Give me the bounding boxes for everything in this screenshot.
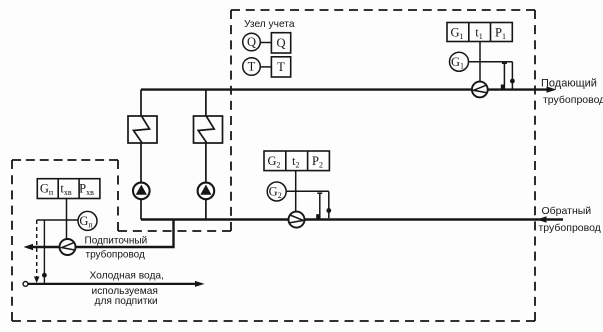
flowmeter FE2 on return pipe xyxy=(289,212,305,228)
P2 tap line with valve dot xyxy=(326,191,331,218)
supply pipe xyxy=(141,88,549,90)
svg-text:Gп: Gп xyxy=(40,182,54,198)
circle G1 xyxy=(450,52,469,71)
svg-text:tхв: tхв xyxy=(60,182,71,198)
svg-text:t1: t1 xyxy=(475,25,482,41)
pump 2 xyxy=(198,183,215,200)
makeup pipe arrow xyxy=(24,244,34,250)
svg-text:Pхв: Pхв xyxy=(79,182,94,198)
riser 1 (left heat-exchanger branch) xyxy=(140,90,142,220)
wire G1 circle to t1 line and on to P1 tap xyxy=(469,61,513,63)
svg-text:G2: G2 xyxy=(269,185,282,201)
instrument row Gp txv Pxv xyxy=(37,179,100,199)
svg-text:Gп: Gп xyxy=(79,214,93,230)
cold water pipe xyxy=(28,283,198,285)
return pipe arrow xyxy=(537,216,547,222)
svg-text:для подпитки: для подпитки xyxy=(95,296,158,307)
svg-text:G1: G1 xyxy=(451,55,464,71)
wire t1 box down to flowmeter FE1 xyxy=(479,42,481,82)
instrument row G1 t1 P1 xyxy=(447,23,512,42)
svg-text:трубопровод: трубопровод xyxy=(539,222,601,234)
flowmeter FE1 on supply pipe xyxy=(472,82,488,98)
wire Gp circle left to taps xyxy=(37,219,78,221)
svg-text:P2: P2 xyxy=(312,154,323,170)
svg-text:Q: Q xyxy=(247,35,256,49)
wire G2 circle to t2 line and on to P2 tap xyxy=(286,190,329,192)
svg-text:G2: G2 xyxy=(267,154,280,170)
flowmeter FE3 on makeup pipe xyxy=(60,239,76,255)
circle Gp xyxy=(78,211,97,230)
cold water tap line with valve dot xyxy=(42,220,47,283)
svg-text:Q: Q xyxy=(276,36,285,50)
svg-text:Холодная вода,: Холодная вода, xyxy=(90,271,164,282)
heat exchanger 2 xyxy=(194,116,223,143)
heat exchanger 1 xyxy=(128,116,157,143)
riser 2 (right heat-exchanger branch) xyxy=(205,90,207,220)
svg-text:T: T xyxy=(248,60,256,74)
cold water pipe end circle xyxy=(23,282,28,287)
makeup pipe xyxy=(29,219,174,248)
svg-text:трубопровод: трубопровод xyxy=(86,248,146,260)
wire t2 box down to flowmeter FE2 xyxy=(295,171,297,212)
svg-text:P1: P1 xyxy=(495,25,506,41)
thermowell tap on supply pipe xyxy=(501,63,507,89)
P1 tap line with valve dot xyxy=(510,62,515,89)
svg-text:Подающий: Подающий xyxy=(541,78,597,90)
wire Q circle to Q box xyxy=(260,42,271,44)
supply pipe arrow xyxy=(547,86,557,92)
box Q xyxy=(271,33,290,53)
pump 1 xyxy=(133,183,150,200)
wire T circle to T box xyxy=(260,66,271,68)
svg-text:Узел учета: Узел учета xyxy=(244,19,295,30)
svg-text:t2: t2 xyxy=(292,154,299,170)
makeup tap line (dashed) with arrow into cold water pipe xyxy=(34,220,40,283)
thermowell tap on return pipe xyxy=(316,193,322,219)
circle T xyxy=(243,58,261,76)
svg-text:Обратный: Обратный xyxy=(542,205,592,217)
svg-text:трубопровод: трубопровод xyxy=(543,94,603,106)
cold water pipe arrow xyxy=(195,281,205,287)
return pipe xyxy=(141,218,563,220)
svg-text:Подпиточный: Подпиточный xyxy=(85,235,148,246)
wire txv box down to flowmeter FE3 xyxy=(66,199,68,240)
svg-text:G1: G1 xyxy=(450,25,463,41)
svg-text:T: T xyxy=(277,60,285,74)
instrument row G2 t2 P2 xyxy=(264,151,329,171)
Q/T instrument block: circle Q xyxy=(243,33,261,51)
circle G2 xyxy=(267,182,286,201)
box T xyxy=(271,57,290,77)
